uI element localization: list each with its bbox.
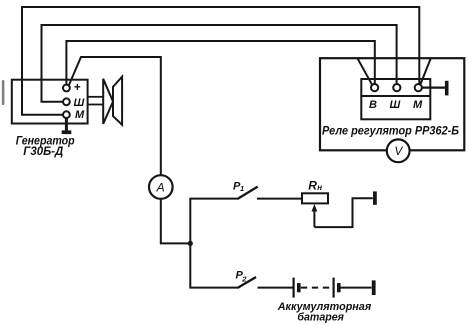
wire loop to relay М (diagonal) <box>420 58 431 85</box>
relay terminal М <box>415 84 422 91</box>
svg-text:М: М <box>413 99 423 111</box>
svg-text:Ш: Ш <box>390 99 401 111</box>
wire switch P1 to rheostat <box>257 198 302 200</box>
rheostat Rн body <box>302 193 328 203</box>
voltmeter V <box>387 139 410 162</box>
battery GB1 <box>294 278 339 298</box>
chassis symbol at relay М <box>445 81 449 96</box>
chassis symbol at battery <box>372 280 376 295</box>
wire gen + to relay В (net +) <box>66 41 374 85</box>
generator terminal М (pin М) <box>63 111 70 118</box>
svg-text:R: R <box>308 179 317 193</box>
pulley <box>103 77 122 125</box>
relay terminal Ш <box>393 84 400 91</box>
wire gen М to relay М (net M) <box>22 7 419 115</box>
switch P2 blade <box>238 277 256 288</box>
svg-text:В: В <box>369 99 377 111</box>
chassis symbol at rheostat <box>373 191 377 204</box>
wire battery to chassis <box>341 287 372 289</box>
wire gen Ш to relay Ш (net Ш) <box>42 25 397 102</box>
relay terminal В <box>371 84 378 91</box>
svg-text:V: V <box>394 144 403 158</box>
wire junction to switch P1 <box>190 199 238 244</box>
svg-text:Реле регулятор РР362-Б: Реле регулятор РР362-Б <box>322 123 459 137</box>
generator box <box>12 80 88 124</box>
svg-text:н: н <box>317 183 322 192</box>
wire wiper to chassis <box>314 198 372 227</box>
svg-text:Г30Б-Д: Г30Б-Д <box>23 146 63 158</box>
wire junction to switch P2 <box>190 243 238 287</box>
pulley shaft <box>88 97 104 105</box>
wire ammeter to junction A1 <box>161 199 191 244</box>
switch P1 blade <box>238 187 258 199</box>
wire switch P2 to battery <box>258 287 294 289</box>
generator terminal + (pin +) <box>63 85 70 92</box>
svg-text:Ш: Ш <box>74 97 85 109</box>
generator terminal Ш (pin Ш) <box>63 98 70 105</box>
svg-text:A: A <box>156 180 165 194</box>
rheostat wiper arrow <box>312 204 318 227</box>
svg-text:+: + <box>74 82 81 94</box>
ammeter A <box>149 175 173 199</box>
svg-text:1: 1 <box>240 184 244 193</box>
voltmeter wiring loop (relay box) <box>320 58 464 150</box>
wire gen + to ammeter <box>69 57 161 175</box>
relay terminal block <box>361 79 430 119</box>
wire loop to relay В (diagonal) <box>357 58 372 85</box>
ground symbol at generator М <box>62 118 72 134</box>
svg-text:2: 2 <box>241 275 247 284</box>
svg-text:М: М <box>75 109 85 121</box>
junction node dot <box>188 241 193 246</box>
svg-text:батарея: батарея <box>297 312 344 324</box>
wire relay М to chassis <box>422 86 445 88</box>
